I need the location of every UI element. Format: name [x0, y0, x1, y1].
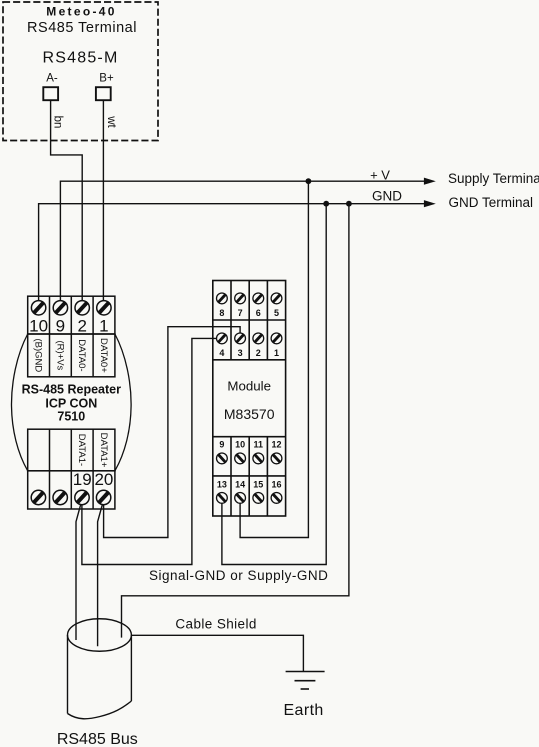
wire +V from repeater pin 9 to supply arrow: [60, 181, 433, 301]
svg-text:GND Terminal: GND Terminal: [449, 195, 534, 210]
svg-text:8: 8: [219, 308, 224, 318]
svg-text:Signal-GND or Supply-GND: Signal-GND or Supply-GND: [149, 568, 328, 583]
svg-text:9: 9: [219, 439, 224, 449]
wire B+ (wt) to repeater pin 1: [102, 100, 104, 301]
terminal pad B+: [96, 87, 111, 100]
repeater bottom screw (cell 2): [53, 490, 67, 504]
svg-text:11: 11: [254, 439, 264, 449]
svg-text:RS485 Bus: RS485 Bus: [57, 731, 138, 747]
svg-text:20: 20: [94, 470, 113, 489]
svg-text:14: 14: [235, 479, 245, 489]
svg-text:Cable Shield: Cable Shield: [175, 616, 256, 631]
wire A- (bn) to repeater pin 2: [51, 100, 83, 301]
svg-text:10: 10: [29, 317, 48, 336]
repeater bottom terminal strip: [28, 471, 115, 509]
svg-text:GND: GND: [372, 188, 402, 203]
wire module pin 13 to GND junction: [222, 204, 326, 565]
earth ground symbol: [286, 672, 325, 690]
module pin 15 screw: [253, 493, 264, 504]
svg-text:bn: bn: [51, 116, 63, 129]
module pin 5 screw: [271, 293, 282, 304]
module pin 13 screw: [217, 493, 228, 504]
svg-text:2: 2: [77, 317, 86, 336]
GND arrowhead: [424, 200, 436, 207]
repeater upper label row: [28, 334, 115, 377]
svg-text:12: 12: [271, 439, 281, 449]
wire repeater pin 19 to bus cable: [76, 505, 81, 641]
svg-text:B+: B+: [99, 73, 114, 85]
svg-text:M83570: M83570: [224, 406, 275, 422]
wire repeater pin 20 to module pin 3: [104, 327, 241, 538]
repeater pin 10 screw: [31, 301, 45, 315]
module pin 10 screw: [235, 453, 246, 464]
supply arrowhead: [424, 178, 436, 185]
module pin 9 screw: [217, 453, 228, 464]
svg-text:2: 2: [256, 348, 261, 358]
svg-text:15: 15: [253, 479, 263, 489]
module pin 16 screw: [271, 493, 282, 504]
svg-text:DATA0-: DATA0-: [76, 339, 87, 371]
svg-text:DATA0+: DATA0+: [98, 338, 109, 373]
repeater pin 1 screw: [97, 301, 111, 315]
svg-text:4: 4: [219, 348, 224, 358]
svg-text:ICP CON: ICP CON: [45, 397, 97, 411]
wire repeater pin 20 to bus cable: [98, 505, 103, 647]
svg-text:(R)+Vs: (R)+Vs: [54, 340, 65, 370]
repeater lower label row: [28, 429, 115, 471]
svg-text:16: 16: [271, 479, 281, 489]
svg-text:1: 1: [274, 348, 279, 358]
module M83570 body: [213, 281, 286, 517]
RS-485 repeater body outline: [11, 334, 131, 471]
repeater pin 2 screw: [75, 301, 89, 315]
svg-text:RS-485 Repeater: RS-485 Repeater: [22, 382, 121, 396]
module pin 11 screw: [253, 453, 264, 464]
junction GND to signal-gnd: [346, 201, 352, 207]
svg-text:DATA1+: DATA1+: [98, 433, 109, 468]
svg-text:19: 19: [73, 470, 92, 489]
svg-text:13: 13: [217, 479, 227, 489]
module pin 2 screw: [253, 333, 264, 344]
wire signal-gnd from GND junction to bus cable: [122, 204, 349, 638]
junction GND to module pin 13: [323, 201, 329, 207]
module pin 4 screw: [217, 333, 228, 344]
repeater bottom screw (cell 1): [31, 490, 45, 504]
junction +V to module pin 14: [306, 178, 312, 184]
svg-text:Module: Module: [227, 379, 271, 394]
repeater top terminal strip: [28, 296, 115, 334]
svg-text:9: 9: [56, 317, 65, 336]
svg-text:Earth: Earth: [283, 702, 323, 719]
svg-text:7510: 7510: [57, 410, 85, 424]
module pin 7 screw: [235, 293, 246, 304]
module pin 6 screw: [253, 293, 264, 304]
svg-text:+ V: + V: [370, 168, 390, 183]
svg-text:7: 7: [238, 308, 243, 318]
wire repeater pin 19 to module pin 4: [82, 338, 217, 564]
module pin 3 screw: [235, 333, 246, 344]
wire module pin 14 to +V junction: [240, 181, 308, 537]
svg-text:Supply Terminal: Supply Terminal: [448, 171, 539, 186]
svg-text:Meteo-40: Meteo-40: [46, 4, 116, 18]
Meteo-40 enclosure (dashed box): [3, 2, 158, 141]
svg-text:3: 3: [238, 348, 243, 358]
wire GND from repeater pin 10 to GND arrow: [39, 204, 434, 301]
module pin 1 screw: [271, 333, 282, 344]
terminal pad A-: [43, 87, 58, 100]
module pin 8 screw: [217, 293, 228, 304]
module pin 12 screw: [271, 453, 282, 464]
repeater pin 20 screw: [96, 490, 110, 504]
svg-text:(B)GND: (B)GND: [33, 339, 44, 373]
RS485 bus cable (cylinder): [68, 619, 132, 719]
svg-text:wt: wt: [105, 115, 117, 128]
repeater pin 9 screw: [53, 301, 67, 315]
svg-text:6: 6: [256, 308, 261, 318]
wire cable shield to earth: [131, 635, 303, 671]
repeater pin 19 screw: [75, 490, 89, 504]
svg-text:10: 10: [235, 439, 245, 449]
svg-text:A-: A-: [46, 73, 58, 85]
module pin 14 screw: [235, 493, 246, 504]
svg-text:RS485 Terminal: RS485 Terminal: [27, 20, 137, 36]
svg-text:1: 1: [99, 317, 108, 336]
svg-text:RS485-M: RS485-M: [43, 50, 119, 67]
svg-text:5: 5: [274, 308, 279, 318]
svg-text:DATA1-: DATA1-: [76, 434, 87, 466]
